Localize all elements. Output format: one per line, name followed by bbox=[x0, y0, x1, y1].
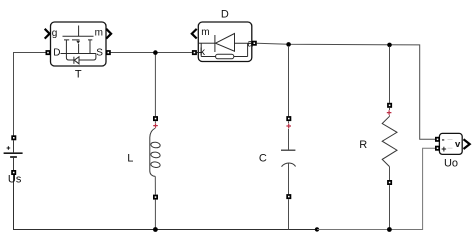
port arrow: Uo output bbox=[464, 139, 470, 149]
svg-text:T: T bbox=[75, 69, 82, 81]
wire: D anode to top-right corner, down to Uo minus bbox=[257, 43, 435, 139]
label Us bbox=[8, 174, 22, 186]
node: junction bottom rail / R bbox=[387, 227, 392, 232]
port square: D anode bbox=[252, 41, 257, 46]
resistor R bbox=[382, 103, 397, 185]
svg-text:Uo: Uo bbox=[444, 157, 458, 169]
port square: T source bbox=[106, 50, 111, 55]
node: junction T-S / L top bbox=[153, 50, 158, 55]
svg-text:D: D bbox=[53, 47, 60, 58]
label L bbox=[127, 152, 133, 164]
svg-text:L: L bbox=[127, 152, 133, 164]
wire: Us top to T drain (left vertical + horizontal) bbox=[14, 53, 46, 136]
diode D inner symbol bbox=[197, 34, 252, 59]
svg-text:m: m bbox=[95, 28, 103, 39]
diode D block body bbox=[198, 22, 252, 62]
svg-text:v: v bbox=[455, 139, 461, 150]
mosfet T block body bbox=[51, 22, 107, 66]
svg-text:m: m bbox=[201, 27, 209, 38]
svg-text:D: D bbox=[221, 9, 229, 21]
port square: D cathode bbox=[192, 50, 197, 55]
node: junction bottom rail / L bbox=[153, 227, 158, 232]
svg-text:S: S bbox=[96, 47, 103, 58]
wire: R bottom to bottom rail bbox=[389, 185, 391, 229]
svg-text:Us: Us bbox=[8, 174, 22, 186]
svg-text:+: + bbox=[441, 144, 446, 154]
port arrow: T gate input bbox=[45, 29, 50, 39]
label T bbox=[75, 69, 82, 81]
mosfet T inner symbol bbox=[61, 26, 96, 64]
label R bbox=[359, 139, 367, 151]
port square: Uo minus bbox=[435, 137, 440, 142]
voltage source Us bbox=[4, 135, 23, 175]
inductor L bbox=[150, 116, 161, 200]
label C bbox=[259, 153, 267, 165]
svg-text:C: C bbox=[259, 153, 267, 165]
wire: T source to D cathode bbox=[111, 52, 192, 54]
mosfet T port labels bbox=[52, 28, 103, 59]
label Uo bbox=[444, 157, 458, 169]
node: junction bottom rail mid bbox=[315, 227, 319, 231]
wire: junction down to C top bbox=[288, 46, 290, 116]
node: junction top wire / C top bbox=[286, 42, 291, 47]
port arrow: D measurement output bbox=[192, 29, 197, 39]
node: junction top wire / R top bbox=[387, 43, 392, 48]
wire: bottom rail mid to Uo plus bbox=[317, 148, 435, 229]
diode D port labels bbox=[200, 27, 253, 58]
wire: L bottom to bottom rail bbox=[154, 200, 156, 230]
label D bbox=[221, 9, 229, 21]
wire: C bottom to bottom rail bbox=[288, 199, 290, 229]
capacitor C bbox=[281, 116, 296, 199]
wire: bottom rail from Us to mid junction bbox=[14, 175, 318, 229]
wire: junction to inductor L top bbox=[154, 53, 156, 117]
voltmeter Uo block body bbox=[439, 133, 462, 154]
svg-text:g: g bbox=[52, 28, 58, 39]
voltmeter Uo inner labels bbox=[441, 135, 461, 154]
port arrow: T measurement output bbox=[106, 29, 111, 39]
svg-text:R: R bbox=[359, 139, 367, 151]
port square: T drain bbox=[46, 50, 51, 55]
wire: junction down to R top bbox=[389, 47, 391, 103]
port square: Uo plus bbox=[435, 146, 440, 151]
